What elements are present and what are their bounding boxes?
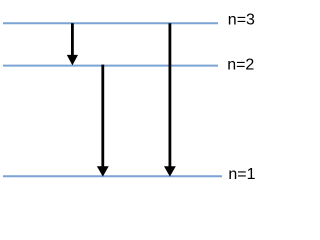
energy level line n=2 bbox=[3, 65, 218, 67]
energy level line n=3 bbox=[3, 22, 218, 24]
transition arrow n=3 to n=1 bbox=[164, 23, 176, 176]
svg-text:n=2: n=2 bbox=[227, 57, 254, 74]
svg-text:n=3: n=3 bbox=[228, 12, 255, 29]
transition arrow n=3 to n=2 bbox=[67, 23, 78, 65]
transition arrow n=2 to n=1 bbox=[97, 65, 109, 177]
energy level line n=1 bbox=[3, 175, 222, 177]
svg-text:n=1: n=1 bbox=[228, 166, 255, 183]
